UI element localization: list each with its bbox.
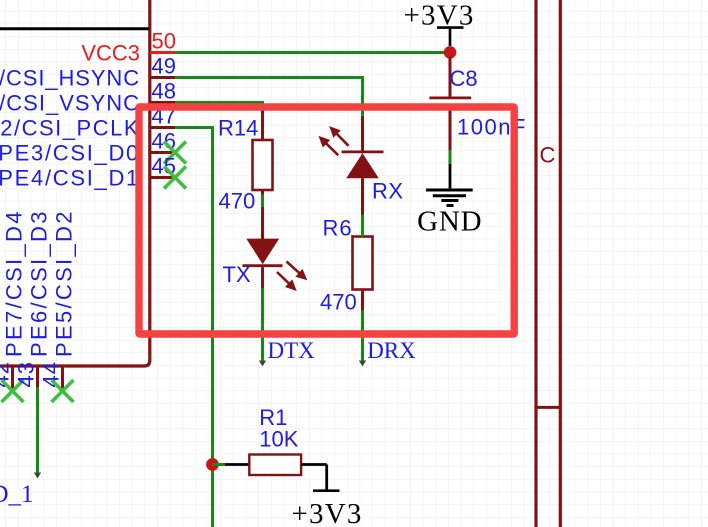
svg-text:GND: GND	[417, 205, 482, 237]
red highlight box	[139, 107, 514, 334]
svg-text:+3V3: +3V3	[292, 498, 363, 527]
resistor R6	[353, 237, 373, 311]
LED RX	[342, 116, 384, 215]
svg-text:44: 44	[39, 361, 64, 387]
TX emit arrow 1	[287, 262, 308, 281]
wire pin 49 to RX	[175, 78, 363, 116]
resistor R1	[225, 455, 326, 476]
no-connect X pin 42	[2, 380, 24, 402]
svg-text:2/CSI_PCLK: 2/CSI_PCLK	[0, 116, 140, 141]
svg-text:TX: TX	[223, 262, 251, 287]
pin 47 stub	[150, 126, 175, 129]
svg-text:470: 470	[219, 189, 256, 214]
ground GND	[417, 164, 482, 238]
svg-text:PE4/CSI_D1: PE4/CSI_D1	[0, 166, 140, 191]
junction dot at R1	[206, 458, 219, 471]
pin 43 stub	[36, 366, 39, 391]
capacitor C8	[429, 57, 471, 151]
wire pin 48 to R14	[175, 103, 263, 107]
pin 49 stub	[150, 76, 175, 79]
svg-text:50: 50	[152, 29, 176, 54]
svg-text:DTX: DTX	[268, 338, 316, 363]
wire TX to DTX	[261, 288, 264, 364]
+3V3 power symbol bottom	[292, 465, 363, 527]
junction dot at +3V3/C8	[444, 46, 457, 59]
connector C body left edge	[534, 0, 537, 527]
wire RX to R6	[361, 215, 364, 237]
svg-text:C8: C8	[450, 66, 478, 91]
svg-text:49: 49	[152, 54, 176, 79]
no-connect X pin 45	[164, 167, 186, 189]
pin 48 stub	[150, 101, 175, 104]
wire R14 to TX	[261, 195, 264, 208]
wire C8 to GND	[449, 151, 452, 164]
svg-text:R6: R6	[323, 216, 353, 241]
wire junction to R1	[213, 463, 227, 466]
svg-text:PE3/CSI_D0: PE3/CSI_D0	[0, 141, 140, 166]
RX emit arrow 2	[319, 136, 339, 155]
wire pin 50 to +3V3 junction	[175, 51, 450, 54]
pin 50 stub	[150, 51, 175, 54]
svg-text:/CSI_HSYNC: /CSI_HSYNC	[0, 66, 140, 91]
wire pin 47 down to R1 junction	[175, 128, 213, 527]
resistor R14	[253, 105, 273, 195]
svg-text:R14: R14	[218, 115, 258, 140]
svg-text:48: 48	[152, 79, 176, 104]
wire end arrow DRX	[359, 361, 366, 367]
svg-text:D_1: D_1	[0, 481, 34, 508]
svg-text:VCC3: VCC3	[81, 41, 140, 66]
LED TX	[243, 207, 283, 288]
black divider line	[0, 27, 149, 30]
svg-text:43: 43	[14, 361, 39, 387]
TX emit arrow 2	[277, 272, 297, 291]
pin 44 stub	[61, 366, 64, 391]
pin 46 stub	[150, 151, 175, 154]
no-connect X pin 46	[164, 142, 186, 164]
wire pin 43 to D_1	[36, 387, 39, 475]
connector C body right edge	[559, 0, 562, 527]
+3V3 power symbol top	[404, 0, 475, 46]
wire end arrow D_1	[34, 473, 41, 479]
svg-text:10K: 10K	[259, 426, 298, 451]
no-connect X pin 44	[52, 380, 74, 402]
svg-text:470: 470	[320, 289, 357, 314]
wire end arrow DTX	[259, 361, 266, 367]
svg-text:DRX: DRX	[367, 338, 416, 363]
svg-text:/CSI_VSYNC: /CSI_VSYNC	[0, 91, 140, 116]
svg-text:C: C	[540, 143, 556, 168]
wire R6 to DRX	[361, 311, 364, 364]
pin 45 stub	[150, 176, 175, 179]
svg-text:PE7/CSI_D4: PE7/CSI_D4	[2, 209, 27, 357]
svg-text:RX: RX	[372, 179, 404, 204]
svg-text:PE5/CSI_D2: PE5/CSI_D2	[52, 209, 77, 357]
connector section rung	[534, 406, 561, 409]
IC U1 body edge	[0, 0, 150, 366]
RX emit arrow 1	[329, 126, 348, 146]
pin 42 stub	[11, 366, 14, 391]
svg-text:PE6/CSI_D3: PE6/CSI_D3	[27, 209, 52, 357]
